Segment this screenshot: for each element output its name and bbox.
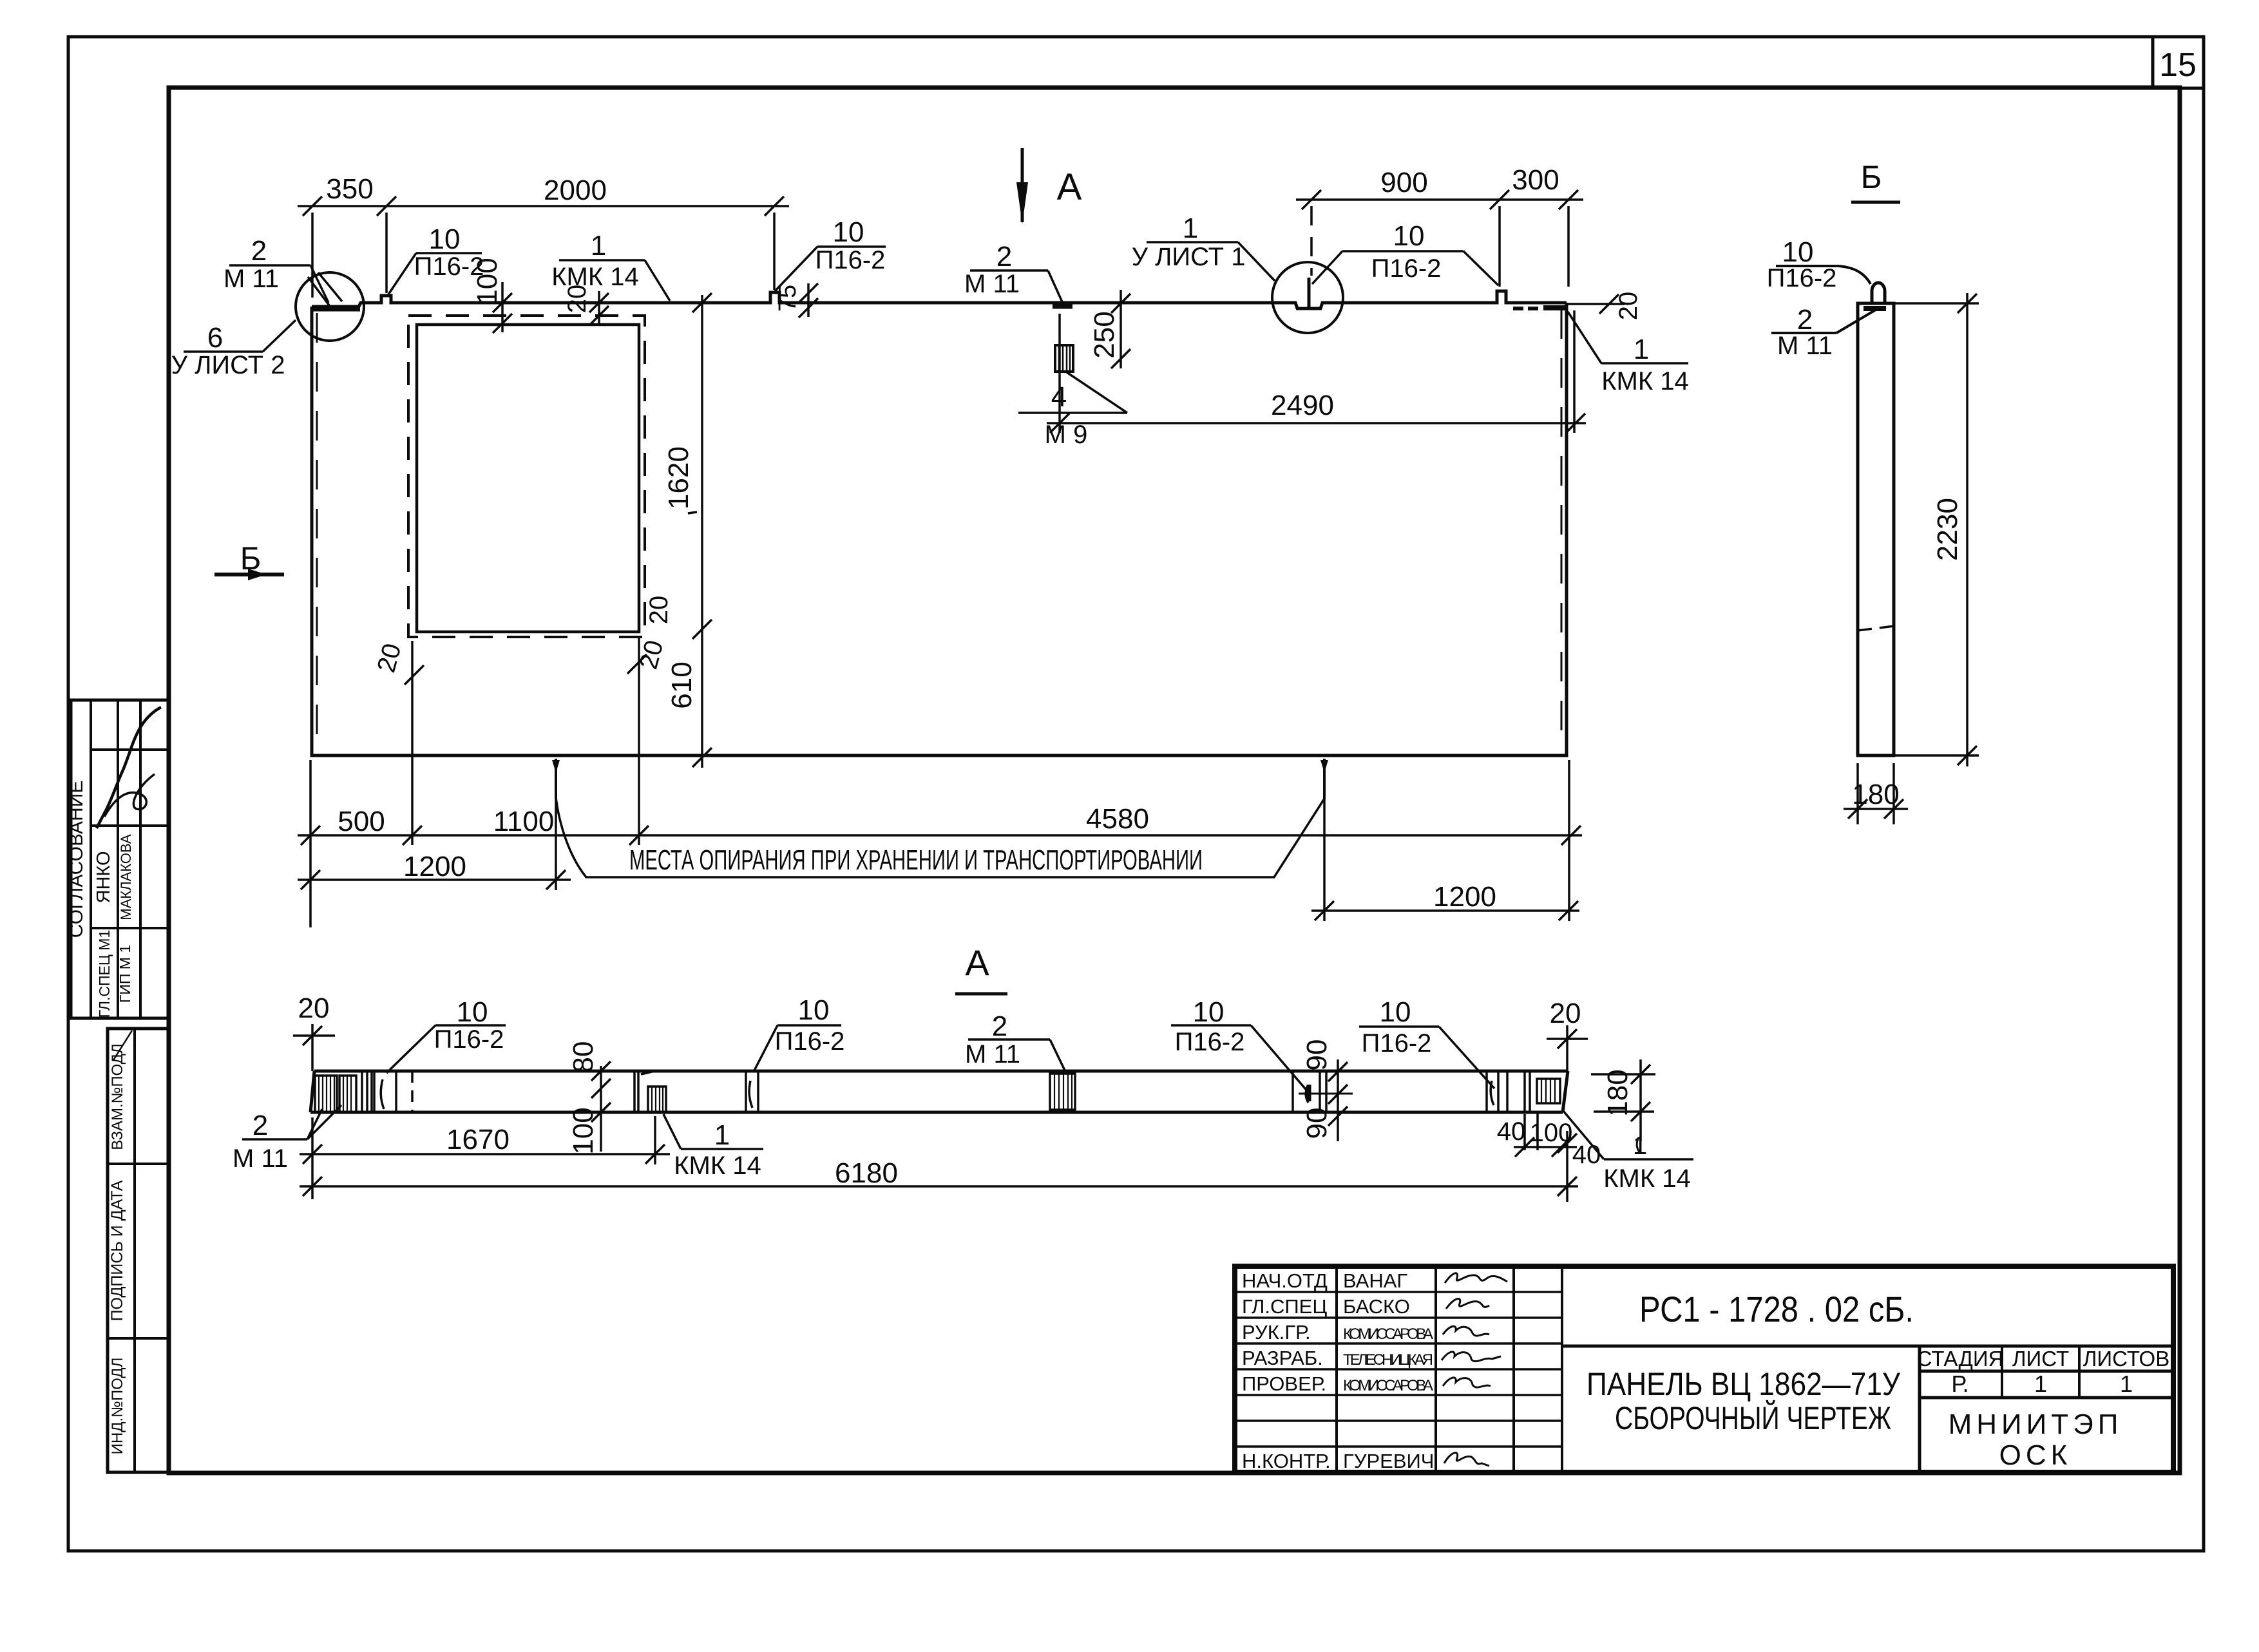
svg-text:610: 610 <box>666 661 698 708</box>
svg-text:20: 20 <box>298 992 330 1024</box>
label 1/КМК 14 right <box>1568 312 1689 395</box>
svg-text:180: 180 <box>1602 1069 1634 1116</box>
dim 1670 <box>300 1116 670 1199</box>
svg-text:У ЛИСТ 2: У ЛИСТ 2 <box>171 351 285 379</box>
svg-text:1: 1 <box>1634 334 1649 365</box>
svg-text:250: 250 <box>1089 311 1120 358</box>
corner rebate plate right <box>1543 305 1566 310</box>
panel outline (elevation) <box>312 303 1567 755</box>
svg-text:1670: 1670 <box>446 1124 510 1155</box>
dashed line (window edge) <box>411 1071 414 1112</box>
svg-text:А: А <box>965 942 989 983</box>
svg-text:2230: 2230 <box>1932 498 1963 561</box>
window side extensions <box>411 641 414 845</box>
svg-text:ЛИСТОВ: ЛИСТОВ <box>2083 1347 2169 1371</box>
panel top edge with notches <box>312 291 1567 309</box>
svg-text:П16-2: П16-2 <box>414 252 484 281</box>
svg-text:10: 10 <box>429 223 461 255</box>
svg-text:1620: 1620 <box>663 446 694 509</box>
dims 40/100/40 right <box>1497 1113 1601 1169</box>
section mark A top <box>1016 148 1082 224</box>
lower sidebar table <box>108 1029 169 1472</box>
dim 250 <box>1120 290 1122 368</box>
support point mark left <box>552 759 560 799</box>
svg-text:МАКЛАКОВА: МАКЛАКОВА <box>118 834 134 920</box>
label 10/П16-2 AA2 <box>754 994 844 1072</box>
svg-text:300: 300 <box>1512 164 1559 196</box>
svg-text:КМК 14: КМК 14 <box>551 263 639 291</box>
svg-text:1100: 1100 <box>493 806 555 837</box>
label 2/М11 left <box>224 235 329 303</box>
svg-text:Н.КОНТР.: Н.КОНТР. <box>1242 1450 1331 1472</box>
window opening dashed outer <box>408 316 645 637</box>
dims 90/90 centre <box>1301 1040 1348 1141</box>
svg-text:1: 1 <box>714 1119 730 1151</box>
svg-text:П16-2: П16-2 <box>1371 254 1442 283</box>
svg-text:РАЗРАБ.: РАЗРАБ. <box>1242 1347 1323 1369</box>
svg-text:ТЕЛЕСНИЦКАЯ: ТЕЛЕСНИЦКАЯ <box>1343 1351 1433 1369</box>
detail circle center (У ЛИСТ 1) <box>1272 262 1343 333</box>
role labels <box>1242 1269 1331 1472</box>
svg-text:КМК 14: КМК 14 <box>1603 1164 1691 1193</box>
svg-text:40: 40 <box>1572 1141 1601 1169</box>
svg-text:1: 1 <box>1183 213 1198 244</box>
svg-text:П16-2: П16-2 <box>775 1027 845 1056</box>
svg-text:М 11: М 11 <box>224 265 279 293</box>
label 10/П16-2 no.3 <box>1312 220 1498 285</box>
svg-text:2: 2 <box>251 235 267 267</box>
М9 anchor hatched box <box>1055 345 1073 372</box>
svg-text:1: 1 <box>2120 1371 2133 1397</box>
signature table columns <box>1337 1266 1562 1472</box>
svg-text:10: 10 <box>1193 996 1225 1028</box>
dim line 900/300 <box>1296 198 1583 201</box>
double verticals <box>362 1071 372 1112</box>
svg-text:МЕСТА ОПИРАНИЯ ПРИ ХРАНЕНИИ И: МЕСТА ОПИРАНИЯ ПРИ ХРАНЕНИИ И ТРАНСПОРТИ… <box>629 844 1203 876</box>
label 10/П16-2 no.1 <box>387 223 484 296</box>
svg-text:РС1 - 1728 . 02 сБ.: РС1 - 1728 . 02 сБ. <box>1639 1289 1914 1329</box>
dim 20 right corner <box>1568 303 1625 305</box>
svg-text:1: 1 <box>1633 1132 1647 1160</box>
svg-text:ПАНЕЛЬ ВЦ 1862—71У: ПАНЕЛЬ ВЦ 1862—71У <box>1587 1366 1900 1402</box>
svg-text:ОСК: ОСК <box>1999 1439 2072 1471</box>
svg-text:СБОРОЧНЫЙ ЧЕРТЕЖ: СБОРОЧНЫЙ ЧЕРТЕЖ <box>1615 1400 1891 1436</box>
window opening solid inner <box>417 325 639 632</box>
right part dividers <box>1562 1346 2173 1472</box>
SECTION A-A <box>233 992 1693 1202</box>
SIDEBAR <box>66 700 169 1472</box>
svg-text:П16-2: П16-2 <box>1362 1029 1432 1058</box>
М11 hatched box middle <box>1050 1074 1075 1110</box>
svg-text:2: 2 <box>992 1011 1007 1042</box>
svg-text:80: 80 <box>567 1041 599 1073</box>
stray dash below 1620 <box>688 512 697 513</box>
svg-text:40: 40 <box>1497 1117 1526 1146</box>
dim 180 right end <box>1591 1059 1655 1152</box>
sheet number box 15 <box>2153 37 2204 88</box>
centre joint detail <box>1293 1071 1326 1112</box>
svg-text:180: 180 <box>1852 779 1899 810</box>
svg-text:20: 20 <box>1550 998 1581 1029</box>
svg-text:У ЛИСТ 1: У ЛИСТ 1 <box>1132 243 1246 271</box>
dim line 500/1100/4580 <box>298 834 1582 837</box>
section A bottom title <box>955 942 1007 994</box>
svg-text:БАСКО: БАСКО <box>1343 1295 1410 1318</box>
svg-text:2: 2 <box>253 1110 268 1141</box>
dim 20 left <box>293 992 335 1071</box>
svg-text:ИНД.№ПОДЛ: ИНД.№ПОДЛ <box>109 1358 126 1455</box>
svg-text:1: 1 <box>2034 1371 2047 1397</box>
label 2/М11 <box>1771 304 1876 360</box>
right end verticals <box>1507 1071 1530 1112</box>
М11 plate middle <box>1053 303 1072 309</box>
label 10/П16-2 AA4 <box>1359 996 1494 1088</box>
dim 6180 <box>300 1131 1578 1202</box>
TITLE BLOCK <box>1235 1266 2173 1472</box>
label 1/КМК14 AA right <box>1563 1111 1693 1193</box>
svg-text:4: 4 <box>1051 381 1067 413</box>
dim 75 at tab <box>807 283 810 317</box>
detail circle left corner <box>296 272 364 341</box>
label 1/У ЛИСТ 1 <box>1132 213 1275 281</box>
label 10/П16-2 no.2 <box>775 216 886 291</box>
extension line 1620/610 <box>701 295 703 768</box>
svg-text:КОМИССАРОВА: КОМИССАРОВА <box>1343 1325 1433 1343</box>
svg-text:ЯНКО: ЯНКО <box>93 851 114 903</box>
strip outline <box>310 1071 1568 1112</box>
svg-text:КМК 14: КМК 14 <box>674 1152 761 1180</box>
names <box>1343 1269 1434 1472</box>
svg-text:М 9: М 9 <box>1045 421 1088 449</box>
svg-text:М 11: М 11 <box>1777 332 1833 360</box>
dim 180 <box>1844 763 1908 824</box>
panel column (view Б) <box>1858 303 1894 755</box>
dim line 1200 left <box>298 878 571 881</box>
svg-text:А: А <box>1057 166 1082 208</box>
П16-2 slot right <box>1487 1071 1498 1112</box>
inner drawing frame <box>169 88 2180 1473</box>
svg-text:П16-2: П16-2 <box>434 1025 504 1054</box>
dim line 2490 <box>1047 422 1586 424</box>
stage cells <box>1917 1347 2170 1397</box>
П16-2 slot block left <box>374 1071 396 1112</box>
svg-text:10: 10 <box>833 216 864 248</box>
П16-2 slot at 1168 <box>746 1071 758 1112</box>
svg-text:900: 900 <box>1380 167 1427 198</box>
dims 80/100 <box>567 1041 611 1155</box>
svg-text:М 11: М 11 <box>965 1040 1020 1068</box>
leader line МЕСТА ОПИРАНИЯ <box>556 797 1324 877</box>
svg-text:10: 10 <box>1380 996 1411 1028</box>
left end hatched blocks (М11 embed) <box>315 1076 356 1112</box>
svg-text:500: 500 <box>338 806 385 837</box>
svg-text:ВАНАГ: ВАНАГ <box>1343 1269 1407 1292</box>
svg-text:М 11: М 11 <box>964 270 1020 298</box>
wire loop dashed inner edges of panel <box>316 313 318 750</box>
label 2/М11 AA middle <box>965 1011 1066 1073</box>
svg-text:20: 20 <box>1614 292 1643 321</box>
svg-text:2: 2 <box>996 241 1012 272</box>
right end hatched block <box>1537 1079 1560 1103</box>
dim 2230 <box>1894 293 1979 766</box>
svg-text:90: 90 <box>1301 1040 1333 1071</box>
label 10/П16-2 AA1 <box>386 996 506 1073</box>
svg-text:1200: 1200 <box>403 851 466 882</box>
svg-text:НАЧ.ОТД: НАЧ.ОТД <box>1242 1269 1328 1292</box>
label 2/М11 far left <box>233 1105 341 1173</box>
dim 100 window top <box>501 282 504 332</box>
svg-text:ВЗАМ.№ПОДЛ: ВЗАМ.№ПОДЛ <box>109 1043 126 1150</box>
svg-text:2000: 2000 <box>544 175 607 206</box>
svg-text:ГУРЕВИЧ: ГУРЕВИЧ <box>1343 1450 1434 1472</box>
signature table rows <box>1235 1292 1562 1447</box>
signatures scrawls <box>1442 1273 1507 1466</box>
label 4/М9 <box>1018 372 1127 449</box>
svg-text:ПОДПИСЬ И ДАТА: ПОДПИСЬ И ДАТА <box>108 1180 126 1321</box>
svg-text:10: 10 <box>1393 220 1425 252</box>
lifting loop П16-2 <box>1872 283 1885 303</box>
svg-text:6: 6 <box>207 322 223 354</box>
svg-text:2: 2 <box>1797 304 1813 336</box>
svg-text:Б: Б <box>1861 159 1882 195</box>
tick slashes <box>301 190 1619 920</box>
dim 20 right <box>1547 998 1588 1071</box>
dim line 350/2000 <box>298 205 789 207</box>
break dashes <box>1858 626 1894 631</box>
svg-text:20: 20 <box>645 596 673 625</box>
svg-text:М 11: М 11 <box>233 1144 288 1173</box>
label 1/КМК 14 AA <box>663 1114 763 1180</box>
svg-text:ГЛ.СПЕЦ М1: ГЛ.СПЕЦ М1 <box>96 930 113 1018</box>
label 10/П16-2 AA3 <box>1171 996 1309 1101</box>
svg-text:10: 10 <box>1782 236 1814 268</box>
svg-text:90: 90 <box>1301 1108 1333 1139</box>
svg-text:П16-2: П16-2 <box>815 246 886 274</box>
svg-text:МНИИТЭП: МНИИТЭП <box>1949 1409 2123 1440</box>
section mark Б left <box>214 540 284 580</box>
svg-text:1: 1 <box>591 230 606 261</box>
dim line 1200 right <box>1311 909 1579 912</box>
svg-text:100: 100 <box>567 1107 599 1154</box>
window right edge verticals <box>634 1071 638 1112</box>
svg-text:СТАДИЯ: СТАДИЯ <box>1917 1347 2004 1371</box>
upper agreement table <box>71 700 169 1018</box>
svg-text:Р.: Р. <box>1951 1371 1968 1397</box>
svg-text:КМК 14: КМК 14 <box>1601 367 1689 395</box>
SIDE VIEW B <box>1767 159 1979 824</box>
svg-text:ЛИСТ: ЛИСТ <box>2012 1347 2069 1371</box>
approval signature scrawl <box>97 707 161 828</box>
svg-text:П16-2: П16-2 <box>1175 1028 1245 1056</box>
svg-text:КОМИССАРОВА: КОМИССАРОВА <box>1343 1377 1433 1394</box>
svg-text:РУК.ГР.: РУК.ГР. <box>1242 1321 1311 1343</box>
corner rebate plate left <box>313 306 360 312</box>
svg-text:6180: 6180 <box>835 1157 898 1189</box>
DIMENSIONS-ELEVATION <box>171 164 1689 994</box>
svg-text:1200: 1200 <box>1433 881 1496 913</box>
svg-text:15: 15 <box>2159 46 2197 84</box>
label 6/У ЛИСТ 2 <box>171 320 296 379</box>
ELEVATION <box>214 148 1567 877</box>
М11 plate <box>1863 306 1886 311</box>
label 10/П16-2 <box>1767 236 1871 292</box>
svg-text:ГЛ.СПЕЦ: ГЛ.СПЕЦ <box>1242 1295 1327 1318</box>
label 1/КМК 14 top <box>551 230 670 301</box>
svg-text:10: 10 <box>798 994 830 1026</box>
label 2/М11 middle <box>964 241 1063 303</box>
svg-text:4580: 4580 <box>1086 803 1149 835</box>
dim 20 window top <box>598 291 600 323</box>
dimension texts <box>326 164 1643 913</box>
svg-text:10: 10 <box>457 996 488 1028</box>
svg-text:2490: 2490 <box>1271 390 1334 421</box>
svg-text:350: 350 <box>326 173 373 205</box>
svg-text:СОГЛАСОВАНИЕ: СОГЛАСОВАНИЕ <box>66 781 87 938</box>
sidebar vertical texts <box>66 781 134 1455</box>
svg-text:ГИП М 1: ГИП М 1 <box>117 945 133 1003</box>
support point mark right <box>1320 759 1328 799</box>
svg-text:П16-2: П16-2 <box>1767 264 1837 292</box>
svg-text:ПРОВЕР.: ПРОВЕР. <box>1242 1372 1326 1395</box>
КМК14 anchor hatched <box>648 1087 666 1112</box>
